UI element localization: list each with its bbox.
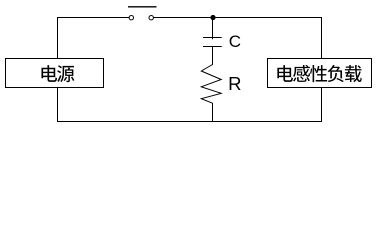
label 负 of 电感性负载 xyxy=(328,65,344,82)
wire: power source top lead up and right to switch left terminal xyxy=(58,18,130,59)
wire: bottom return from power source box to load box xyxy=(58,88,322,122)
box: inductive load 电感性负载 xyxy=(268,59,372,88)
label 源 of 电源 xyxy=(57,65,74,82)
box: power source 电源 xyxy=(6,59,104,88)
svg-text:C: C xyxy=(229,32,241,51)
switch S right terminal circle xyxy=(149,16,153,20)
resistor R zigzag with leads xyxy=(201,47,221,122)
svg-text:R: R xyxy=(228,73,241,94)
node: junction dot where capacitor branch taps top wire xyxy=(210,15,215,20)
label 载 of 电感性负载 xyxy=(345,65,362,82)
label 性 of 电感性负载 xyxy=(310,65,327,82)
label 电 of 电感性负载 xyxy=(277,65,293,82)
label 电 of 电源 xyxy=(41,65,57,82)
switch S left terminal circle xyxy=(129,16,133,20)
capacitor C bottom plate xyxy=(203,46,222,48)
wire: junction down to capacitor top plate xyxy=(212,18,214,40)
capacitor C top plate xyxy=(203,37,222,39)
wire: switch right terminal to junction and down into load box xyxy=(154,18,322,59)
label 感 of 电感性负载 xyxy=(293,65,310,82)
switch S bar xyxy=(128,6,157,8)
